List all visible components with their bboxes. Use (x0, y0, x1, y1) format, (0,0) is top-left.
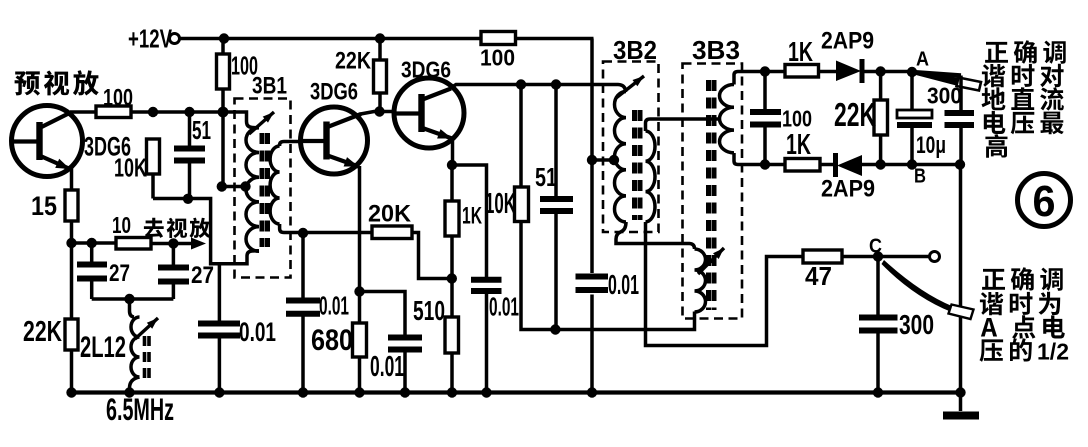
junction dot tap on 3B2 primary (609, 155, 619, 165)
resistor 100 (horizontal, top right, series in rail) (481, 32, 516, 45)
junction dot rail at x380 (375, 33, 385, 43)
junction dot 51-2 bottom (550, 324, 560, 334)
resistor 10K (second) (515, 187, 529, 222)
node B junction dot (907, 159, 917, 169)
wire 27a bottom lead (90, 281, 94, 299)
wire 300 top cap bottom lead (959, 125, 963, 165)
wire emitter bus down to 22K (70, 243, 74, 319)
wire Q1 emitter to 15 resistor (70, 168, 74, 190)
junction dot 0.01 x303 top (298, 228, 308, 238)
junction dot 22K right bottom (875, 159, 885, 169)
svg-text:0.01: 0.01 (239, 317, 276, 347)
pointer wedge at point A (914, 71, 960, 87)
transistor Q1 3DG6 emitter lead with arrow (41, 156, 71, 169)
resistor 510 (445, 317, 459, 353)
resistor 47 (803, 250, 842, 263)
transistor Q2 3DG6 base lead (302, 139, 327, 143)
transistor Q3 3DG6 base lead (395, 111, 422, 115)
wire 22K right top lead (879, 72, 883, 101)
transformer 3B1 primary winding (246, 128, 259, 252)
wire 2L12 top lead (130, 299, 135, 317)
transistor Q3 3DG6 collector lead (423, 89, 452, 100)
wire detector top to 1K (765, 70, 785, 74)
wire Q3 emitter bypass branch (452, 165, 487, 280)
capacitor 0.01 (3B1 bottom decoupling) (198, 324, 240, 336)
wire C to terminal (878, 255, 930, 259)
wire 3B2 secondary top to 3B3 tap (646, 119, 720, 131)
capacitor 100 (3B3 resonating) (750, 112, 781, 125)
transistor Q1 3DG6 base lead (13, 139, 40, 143)
transformer 3B2 shield box (603, 62, 659, 233)
resistor 22K (vertical, T2 collector load) (374, 60, 387, 93)
wire +12V rail right segment (516, 37, 594, 41)
transformer 3B3 shield box (683, 64, 743, 319)
wire 3B1 primary tap (222, 185, 245, 189)
svg-text:100: 100 (480, 45, 515, 71)
svg-text:0.01: 0.01 (319, 291, 349, 321)
wire 22K top lead (378, 39, 382, 61)
capacitor 300 (bottom, de-emphasis) (859, 318, 898, 331)
resistor 1K (bottom detector) (785, 159, 820, 172)
svg-text:300: 300 (927, 83, 962, 109)
wire 27b top lead (172, 244, 176, 266)
transformer 3B3 secondary winding (top) (720, 85, 735, 153)
wire 22K bottom lead (378, 93, 382, 112)
resistor 100 (horizontal, Q1 collector) (96, 106, 131, 118)
svg-text:2AP9: 2AP9 (821, 176, 875, 203)
wire 51 cap top lead (188, 112, 192, 146)
svg-text:3B1: 3B1 (252, 73, 287, 100)
wire collector line to 3B1 primary top (131, 112, 259, 128)
wire +12V rail left segment (180, 37, 482, 41)
transistor Q1 3DG6 circle (12, 106, 83, 177)
wire supply drop lower part to ground rail (590, 295, 594, 393)
adjust arrow of 2L12 (135, 318, 158, 339)
svg-text:300: 300 (899, 309, 934, 340)
junction dot detector bottom left (760, 159, 770, 169)
core of 2L12 (145, 336, 150, 378)
note top right line2 谐时对 (982, 64, 1064, 88)
junction dot ground rail x129.5 (124, 387, 134, 397)
wire 3B3 secondary bottom lead (734, 153, 765, 165)
transistor Q2 3DG6 base bar (323, 122, 329, 160)
wire Q2 emitter down (358, 166, 362, 292)
svg-text:C: C (869, 235, 882, 258)
wire 51-2 top lead (554, 85, 558, 197)
transformer 3B1 shield box (235, 99, 291, 278)
wire 0.01 x303 bottom lead (301, 317, 305, 393)
junction dot 51 top at collector line (551, 79, 561, 89)
resistor 1K (Q3 emitter) (445, 201, 459, 236)
svg-text:47: 47 (805, 261, 832, 291)
svg-text:2L12: 2L12 (80, 331, 126, 364)
wire ground rail (72, 390, 961, 394)
svg-text:10K: 10K (485, 188, 516, 220)
wire right drop to ground (959, 165, 963, 412)
resistor 1K (top detector) (785, 65, 819, 78)
wire 22K left bottom lead (70, 350, 74, 393)
node C terminal circle (930, 252, 940, 262)
wire C down to 300 cap (876, 257, 880, 318)
resistor 22K (right, load) (874, 100, 888, 135)
wire 3B2 primary bottom to 3B3 tertiary top (616, 222, 695, 249)
capacitor 10u electrolytic negative plate (897, 122, 932, 128)
diode D2 2AP9 (bottom) (837, 155, 862, 176)
wire 15 bottom lead (70, 221, 74, 243)
transformer 3B1 core (262, 133, 268, 247)
junction dot 2L12 top (124, 294, 134, 304)
wire 0.01 cap to ground rail (218, 339, 222, 393)
svg-text:1K: 1K (788, 36, 813, 67)
wire 3B1 secondary top to Q2 base (280, 142, 301, 147)
wire 1K bottom lead (450, 236, 454, 279)
capacitor 10u electrolytic positive plate (897, 110, 932, 118)
note top right line1 正确调 (985, 40, 1066, 64)
resistor 10K (vertical, Q1) (147, 139, 160, 174)
wire Q1 collector to 100 resistor (70, 110, 96, 114)
wire D1 to point A (865, 70, 913, 74)
adjust arrow of 3B1 (249, 112, 274, 134)
junction dot Q2 collector/22K/Q3 base (374, 106, 384, 116)
wire 27b bottom lead (172, 284, 176, 299)
svg-text:3DG6: 3DG6 (310, 79, 358, 106)
arrowhead to video amp (191, 238, 206, 250)
junction dot Q2 emitter node (354, 286, 364, 296)
node A junction dot (907, 67, 917, 77)
svg-text:22K: 22K (335, 48, 371, 75)
transistor Q3 3DG6 circle (394, 78, 464, 148)
label 预视放 (pre video amp) (15, 70, 99, 95)
svg-text:+12V: +12V (128, 24, 172, 54)
svg-text:10: 10 (112, 212, 131, 238)
wire Q3 collector line to 3B2 primary (451, 85, 626, 93)
junction dot ground rail x452 (447, 387, 457, 397)
wire junction to Q3 base (380, 110, 396, 114)
junction dot Q3 emitter node (447, 160, 457, 170)
wire 680 bottom lead (358, 357, 362, 393)
transformer 3B3 core (709, 80, 715, 310)
resistor 22K (vertical left leg) (65, 319, 78, 350)
wire 47 to point C (842, 255, 878, 259)
svg-text:51: 51 (192, 115, 211, 145)
pointer curve at point C (882, 260, 954, 312)
wire 300 top cap leads (959, 76, 963, 114)
capacitor 300 (top) (945, 113, 975, 125)
transformer 3B3 tertiary winding (bottom) (695, 249, 706, 312)
wire bottom of 27 caps bus (92, 297, 174, 301)
svg-text:0.01: 0.01 (608, 269, 639, 300)
svg-text:2AP9: 2AP9 (821, 28, 874, 55)
note bottom right line1 正确调 (982, 267, 1063, 291)
wire cap100 top lead (763, 72, 767, 113)
svg-text:10μ: 10μ (916, 132, 946, 159)
capacitor 0.01 (supply decoupling x592) (576, 277, 609, 291)
wire cap100 bottom lead (763, 125, 767, 165)
junction dot ground rail x486.5 (481, 387, 491, 397)
svg-text:22K: 22K (23, 316, 62, 348)
svg-text:1K: 1K (462, 203, 482, 230)
junction dot tap on 3B1 primary (240, 181, 250, 191)
wire point A to 300 cap drop (912, 72, 961, 76)
wire 3B1 secondary bottom to y233 bus (280, 224, 372, 233)
transistor Q3 3DG6 base bar (418, 94, 424, 132)
resistor 680 (Q2 emitter) (353, 323, 367, 357)
ground symbol (943, 412, 979, 420)
transistor Q1 3DG6 collector lead (41, 113, 71, 128)
transformer 3B2 primary winding (615, 92, 627, 223)
junction dot ground rail x878 (873, 387, 883, 397)
svg-text:0.01: 0.01 (489, 292, 519, 322)
diode D1 2AP9 (top) (836, 61, 861, 82)
wire Q3 emitter down (451, 138, 455, 165)
transformer 3B2 core (635, 110, 641, 220)
transistor Q2 3DG6 circle (301, 107, 368, 174)
capacitor 27 right (158, 268, 189, 282)
svg-text:3DG6: 3DG6 (401, 57, 451, 83)
svg-text:3B2: 3B2 (613, 35, 657, 65)
wire 3B3 secondary top lead (734, 72, 765, 85)
pointer tail flag at point C (949, 305, 974, 320)
wire 51-2 bottom lead (554, 214, 558, 330)
svg-text:6: 6 (1033, 177, 1056, 226)
junction dot right drop top (955, 159, 965, 169)
wire emitter to 0.01 bypass (360, 292, 406, 335)
wire 10 resistor output with arrow (151, 242, 192, 246)
svg-text:15: 15 (31, 191, 57, 221)
junction dot ground rail x405 (400, 387, 410, 397)
svg-text:100: 100 (782, 106, 812, 132)
wire Q3 bypass bottom lead (485, 294, 489, 393)
wire 10K-2 top lead (519, 85, 523, 188)
wire 680 top lead (358, 292, 362, 324)
inductor 2L12 coil (131, 317, 140, 377)
note top right line3 地直流 (982, 87, 1064, 110)
wire branch down to 0.01 cap (218, 264, 222, 321)
wire 2L12 bottom lead (130, 377, 140, 393)
junction dot detector top left (760, 66, 770, 76)
junction dot tap wire left (217, 181, 227, 191)
wire 10u cap bottom lead (910, 128, 914, 165)
svg-text:B: B (914, 165, 926, 188)
resistor 15 (Q1 emitter) (65, 190, 78, 221)
junction dot 27b top (168, 238, 178, 248)
svg-text:22K: 22K (834, 96, 876, 133)
wire 1K top lead (450, 165, 454, 201)
svg-text:20K: 20K (368, 201, 411, 228)
svg-text:27: 27 (109, 260, 130, 287)
capacitor 27 left (77, 265, 107, 279)
junction dot ground rail x219.4 (214, 387, 224, 397)
pointer tail flag at point A (957, 78, 982, 91)
transformer 3B1 secondary winding (270, 146, 280, 224)
wire Q2 bypass cap bottom lead (403, 353, 407, 393)
transistor Q2 3DG6 emitter lead with arrow (328, 156, 359, 167)
wire 1K to diode D1 (819, 70, 837, 74)
resistor 20K (horizontal feedback) (372, 226, 412, 239)
wire 100-resistor top lead (221, 39, 225, 55)
wire 10u cap top lead (910, 72, 914, 110)
wire 510 top lead (450, 279, 454, 318)
capacitor 51 (second) (540, 199, 573, 211)
note bottom right line3 A点电 (981, 315, 1065, 338)
svg-text:6.5MHz: 6.5MHz (106, 391, 174, 427)
wire Q2 collector up to junction (361, 112, 381, 115)
svg-text:10K: 10K (114, 153, 147, 183)
junction dot ground rail x960.5 (955, 387, 965, 397)
wire 10K bottom lead (151, 174, 155, 199)
capacitor 0.01 (Q2 emitter bypass) (388, 338, 422, 350)
capacitor 51 (Q1 collector bypass) (174, 149, 205, 161)
wire supply drop at x592 (590, 39, 594, 274)
adjust arrow of 3B3 (698, 248, 724, 274)
wire emitter bus y243 (72, 241, 117, 245)
junction dot ground rail x303 (298, 387, 308, 397)
note top right line4 电压最 (984, 111, 1064, 134)
transistor Q2 3DG6 collector lead (328, 114, 362, 127)
transistor Q3 3DG6 emitter lead with arrow (423, 128, 453, 139)
junction dot ground rail x592 (587, 387, 597, 397)
svg-text:510: 510 (413, 295, 445, 326)
resistor 100 (vertical, +12V to collector line) (217, 54, 230, 89)
wire 510 bottom lead (450, 353, 454, 393)
wire 1K to diode D2 (820, 163, 834, 167)
svg-text:0.01: 0.01 (370, 351, 404, 383)
junction dot supply cross at x223 (218, 107, 229, 118)
svg-text:680: 680 (311, 324, 353, 357)
junction dot 27a top (87, 238, 97, 248)
junction dot 1K/510/20K node (447, 273, 457, 283)
svg-text:100: 100 (103, 85, 133, 112)
wire 10K/51 bottom bus to 3B1 primary bottom (153, 199, 259, 264)
junction dot 51 bottom (183, 194, 193, 204)
capacitor 0.01 (Q3 emitter bypass) (471, 280, 502, 291)
junction dot 22K right top (875, 66, 885, 76)
junction dot 10K top (148, 107, 158, 117)
wire 20K output bend (412, 233, 452, 279)
wire 300 bottom cap to ground rail (876, 331, 880, 393)
junction dot ground rail x359.5 (354, 387, 364, 397)
node C junction dot (873, 251, 883, 261)
note bottom right line2 谐时为 (980, 292, 1060, 316)
junction dot rail at x223 (219, 33, 229, 43)
capacitor 0.01 (x303) (286, 301, 320, 314)
wire 51 cap bottom lead (188, 164, 192, 199)
wire 100-resistor bottom lead down to 3B1 tap (221, 89, 225, 187)
svg-text:1/2: 1/2 (1037, 339, 1069, 365)
svg-text:3B3: 3B3 (692, 35, 740, 65)
note top right line5 高 (985, 134, 1007, 158)
node +12V terminal (170, 34, 180, 44)
junction dot ground rail x71.5 (66, 387, 76, 397)
transistor Q1 3DG6 base bar (36, 122, 42, 160)
callout circled 6 (1018, 174, 1071, 227)
wire 3B2 primary tap to supply (592, 158, 614, 162)
svg-text:A: A (916, 48, 929, 71)
wire 0.01 x303 top lead (301, 233, 305, 300)
wire D2 to B and right drop (862, 163, 961, 167)
resistor 10 (horizontal, to video amp) (116, 238, 151, 250)
wire 22K right bottom lead (879, 135, 883, 165)
transformer 3B2 secondary winding (646, 131, 655, 222)
wire 10K-2 bottom to 3B3 tertiary (521, 222, 695, 330)
junction dot emitter bus left (66, 238, 76, 248)
wire detector bottom to 1K (765, 163, 785, 167)
junction dot 51 top (184, 107, 194, 117)
junction dot supply drop tap (587, 155, 597, 165)
svg-text:1K: 1K (786, 129, 811, 161)
svg-text:51: 51 (535, 162, 557, 192)
junction dot 10K top at collector line (516, 79, 526, 89)
svg-text:27: 27 (191, 262, 214, 289)
wire 27a top lead (90, 243, 94, 262)
label 去视放 (to video amp) (144, 218, 211, 238)
wire 3B2 secondary bottom to 47 resistor (646, 222, 804, 346)
note bottom right line4 压的 (980, 338, 1032, 362)
adjust arrow of 3B2 (616, 76, 644, 98)
